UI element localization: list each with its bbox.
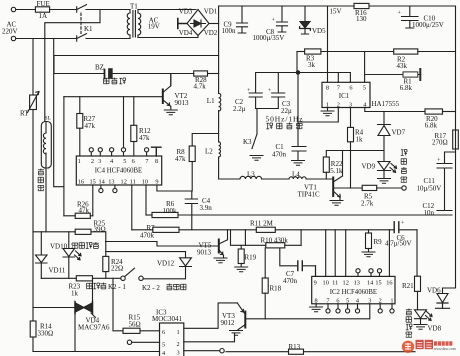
svg-text:3: 3 bbox=[98, 158, 101, 165]
svg-text:VD1: VD1 bbox=[204, 8, 218, 16]
svg-text:3k: 3k bbox=[308, 61, 316, 69]
svg-text:K2 - 2: K2 - 2 bbox=[142, 284, 160, 292]
svg-text:VD4: VD4 bbox=[179, 29, 193, 37]
svg-text:330Ω: 330Ω bbox=[38, 330, 54, 338]
svg-text:270Ω: 270Ω bbox=[432, 139, 448, 147]
svg-text:12: 12 bbox=[121, 179, 127, 186]
svg-text:22Ω: 22Ω bbox=[111, 265, 123, 273]
svg-text:470k: 470k bbox=[140, 232, 155, 240]
svg-text:L2: L2 bbox=[205, 148, 213, 156]
svg-text:L4: L4 bbox=[292, 171, 300, 179]
svg-text:TIP41C: TIP41C bbox=[298, 191, 321, 199]
svg-text:VD2: VD2 bbox=[204, 29, 218, 37]
svg-text:5: 5 bbox=[123, 158, 126, 165]
svg-text:11: 11 bbox=[130, 179, 136, 186]
svg-text:VD11: VD11 bbox=[49, 267, 66, 275]
svg-text:VD3: VD3 bbox=[179, 8, 193, 16]
svg-text:IC4 HCF4060BE: IC4 HCF4060BE bbox=[95, 168, 142, 175]
svg-text:2: 2 bbox=[177, 341, 180, 348]
svg-text:4.7k: 4.7k bbox=[194, 83, 207, 91]
svg-text:10n: 10n bbox=[424, 209, 435, 217]
svg-text:RT: RT bbox=[20, 110, 29, 118]
svg-text:470n: 470n bbox=[283, 277, 298, 285]
svg-text:10: 10 bbox=[323, 279, 329, 286]
svg-text:39Ω: 39Ω bbox=[94, 226, 106, 234]
svg-text:3: 3 bbox=[368, 298, 371, 305]
svg-text:11: 11 bbox=[332, 279, 338, 286]
svg-text:2: 2 bbox=[379, 298, 382, 305]
svg-text:MAC97A6: MAC97A6 bbox=[78, 324, 110, 332]
svg-text:9: 9 bbox=[314, 279, 317, 286]
svg-text:1: 1 bbox=[177, 329, 180, 336]
svg-text:BZ: BZ bbox=[95, 64, 104, 72]
svg-text:6: 6 bbox=[162, 329, 165, 336]
svg-text:8: 8 bbox=[155, 158, 158, 165]
svg-text:12: 12 bbox=[343, 279, 349, 286]
svg-text:K2 - 1: K2 - 1 bbox=[108, 283, 126, 291]
svg-text:R10 430k: R10 430k bbox=[261, 237, 289, 245]
svg-text:1A: 1A bbox=[39, 12, 48, 20]
svg-text:13: 13 bbox=[108, 179, 114, 186]
svg-text:15: 15 bbox=[89, 179, 95, 186]
svg-text:43k: 43k bbox=[397, 62, 408, 70]
svg-text:R21: R21 bbox=[402, 282, 414, 290]
svg-text:220V: 220V bbox=[2, 28, 18, 36]
svg-text:2: 2 bbox=[337, 101, 340, 108]
svg-text:5.1k: 5.1k bbox=[330, 167, 343, 175]
svg-text:47k: 47k bbox=[79, 207, 90, 215]
svg-text:14: 14 bbox=[98, 179, 105, 186]
svg-text:9013: 9013 bbox=[197, 249, 212, 257]
svg-text:8: 8 bbox=[326, 84, 329, 91]
svg-text:16: 16 bbox=[386, 279, 392, 286]
svg-text:FUE: FUE bbox=[37, 0, 50, 8]
svg-text:1: 1 bbox=[390, 298, 393, 305]
svg-text:7: 7 bbox=[145, 158, 148, 165]
svg-text:VD7: VD7 bbox=[392, 129, 406, 137]
svg-text:K1: K1 bbox=[84, 25, 93, 33]
svg-text:K3: K3 bbox=[243, 138, 252, 146]
svg-text:9013: 9013 bbox=[175, 99, 190, 107]
svg-text:10μ/50V: 10μ/50V bbox=[417, 185, 442, 193]
svg-text:2.7k: 2.7k bbox=[361, 200, 374, 208]
svg-text:1: 1 bbox=[326, 101, 329, 108]
svg-text:47k: 47k bbox=[175, 155, 186, 163]
svg-text:VD6: VD6 bbox=[427, 287, 441, 295]
svg-text:2.2μ: 2.2μ bbox=[233, 105, 246, 113]
svg-text:5: 5 bbox=[162, 342, 165, 349]
svg-text:R18: R18 bbox=[270, 285, 282, 293]
svg-text:1k: 1k bbox=[356, 136, 364, 144]
svg-text:1000μ/25V: 1000μ/25V bbox=[412, 21, 444, 29]
svg-text:R13: R13 bbox=[289, 343, 301, 351]
svg-text:16: 16 bbox=[78, 179, 84, 186]
svg-text:2: 2 bbox=[91, 158, 94, 165]
svg-text:R11 2M: R11 2M bbox=[250, 220, 274, 228]
svg-text:7: 7 bbox=[337, 84, 340, 91]
svg-text:IC1: IC1 bbox=[339, 92, 350, 100]
svg-text:15V: 15V bbox=[330, 8, 342, 16]
svg-text:6.8k: 6.8k bbox=[425, 122, 438, 130]
svg-text:VD9: VD9 bbox=[362, 163, 376, 171]
svg-text:R19: R19 bbox=[245, 254, 257, 262]
svg-text:15: 15 bbox=[375, 279, 381, 286]
svg-text:VD5: VD5 bbox=[312, 27, 326, 35]
svg-text:R9: R9 bbox=[374, 238, 383, 246]
svg-text:VD10: VD10 bbox=[50, 243, 68, 251]
svg-text:L1: L1 bbox=[207, 97, 215, 105]
svg-text:IC2 HCF4060BE: IC2 HCF4060BE bbox=[330, 289, 377, 296]
svg-text:100k: 100k bbox=[163, 207, 178, 215]
svg-text:1k: 1k bbox=[71, 290, 79, 298]
svg-text:470n: 470n bbox=[272, 151, 287, 159]
svg-text:SL: SL bbox=[45, 116, 52, 122]
svg-text:14: 14 bbox=[367, 279, 374, 286]
svg-text:6: 6 bbox=[336, 298, 339, 305]
svg-text:6: 6 bbox=[349, 84, 352, 91]
svg-text:3: 3 bbox=[349, 101, 352, 108]
svg-text:L3: L3 bbox=[247, 171, 255, 179]
svg-text:VD8: VD8 bbox=[428, 325, 442, 333]
svg-text:9: 9 bbox=[155, 179, 158, 186]
svg-text:100n: 100n bbox=[222, 27, 237, 35]
svg-text:C6: C6 bbox=[397, 234, 406, 242]
svg-text:13: 13 bbox=[354, 279, 360, 286]
svg-text:www.dzsc.com: www.dzsc.com bbox=[434, 347, 456, 351]
svg-text:1: 1 bbox=[78, 158, 81, 165]
svg-text:8: 8 bbox=[315, 298, 318, 305]
svg-text:VD12: VD12 bbox=[157, 260, 175, 268]
svg-text:3: 3 bbox=[177, 350, 180, 356]
svg-text:6.8k: 6.8k bbox=[400, 84, 413, 92]
svg-text:47k: 47k bbox=[139, 134, 150, 142]
svg-text:6: 6 bbox=[132, 158, 135, 165]
svg-text:HA17555: HA17555 bbox=[372, 100, 400, 108]
svg-text:1000μ/35V: 1000μ/35V bbox=[253, 34, 285, 42]
svg-text:MOC3041: MOC3041 bbox=[152, 315, 182, 323]
svg-text:3.9n: 3.9n bbox=[200, 204, 213, 212]
svg-text:T1: T1 bbox=[130, 3, 138, 11]
svg-text:9012: 9012 bbox=[221, 319, 236, 327]
svg-text:50Hz/1Hz: 50Hz/1Hz bbox=[266, 115, 304, 124]
svg-text:56Ω: 56Ω bbox=[129, 321, 141, 329]
svg-text:130: 130 bbox=[356, 15, 367, 23]
svg-text:47k: 47k bbox=[85, 122, 96, 130]
svg-text:5: 5 bbox=[346, 298, 349, 305]
svg-text:19V: 19V bbox=[148, 23, 160, 31]
svg-text:10: 10 bbox=[142, 179, 148, 186]
svg-text:7: 7 bbox=[326, 298, 329, 305]
svg-text:5: 5 bbox=[363, 84, 366, 91]
